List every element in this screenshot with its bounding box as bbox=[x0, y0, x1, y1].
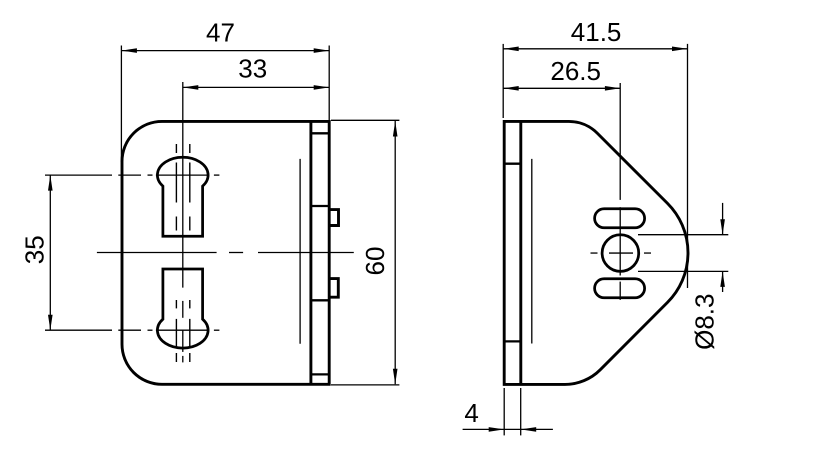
lower circle horizontal centerline bbox=[45, 329, 219, 331]
arrow 35 bottom bbox=[48, 315, 53, 331]
lower slot hidden dashes left bbox=[175, 300, 177, 362]
upper circle horizontal centerline bbox=[45, 174, 219, 176]
arrow 33 left bbox=[183, 85, 199, 90]
dimension 35 bbox=[49, 175, 51, 330]
right view outline bbox=[504, 121, 688, 384]
svg-text:47: 47 bbox=[206, 18, 235, 48]
svg-text:Ø8.3: Ø8.3 bbox=[690, 294, 720, 350]
arrow 47 left bbox=[121, 48, 136, 53]
right strip tick 2 bbox=[504, 340, 521, 342]
left view flange strip line bbox=[309, 121, 312, 384]
arrow 41.5 left bbox=[503, 47, 519, 52]
dimension 4 bbox=[463, 388, 553, 435]
dimension D8.3 extension lines bbox=[638, 203, 728, 292]
svg-text:33: 33 bbox=[238, 54, 267, 84]
arrow 33 right bbox=[314, 85, 330, 90]
tab 2 bbox=[329, 279, 338, 298]
svg-text:35: 35 bbox=[20, 235, 50, 264]
arrow 47 right bbox=[314, 48, 330, 53]
mid horizontal centerline bbox=[97, 252, 354, 254]
arrow 60 top bbox=[393, 121, 398, 137]
slot vertical centerline bbox=[182, 82, 184, 362]
dimension 26.5 bbox=[503, 87, 620, 89]
right view thickness line bbox=[519, 121, 522, 384]
lower keyhole slot bbox=[157, 269, 208, 348]
svg-text:41.5: 41.5 bbox=[571, 17, 622, 47]
upper keyhole slot bbox=[157, 157, 208, 236]
left view outline bbox=[122, 121, 329, 384]
stadium slot lower bbox=[595, 279, 645, 298]
stadium slot upper bbox=[595, 209, 645, 228]
svg-text:26.5: 26.5 bbox=[550, 56, 601, 86]
strip tick 4 bbox=[311, 373, 329, 375]
strip tick 3 bbox=[311, 299, 329, 301]
dimension 41.5 bbox=[503, 44, 687, 288]
svg-text:4: 4 bbox=[464, 398, 478, 428]
right strip tick 1 bbox=[504, 163, 521, 165]
arrowheads left view bbox=[48, 48, 398, 384]
upper slot hidden dashes right bbox=[189, 144, 191, 231]
dimension 60 bbox=[331, 120, 399, 385]
arrow 41.5 right bbox=[672, 47, 688, 52]
dimension 33 bbox=[183, 86, 329, 88]
arrow D8.3 top bbox=[720, 219, 725, 235]
hole circle bbox=[602, 235, 639, 272]
right view bend tangent thin line bbox=[531, 159, 533, 344]
arrow 26.5 right bbox=[605, 86, 621, 91]
tab 1 bbox=[329, 210, 338, 226]
arrow 60 bottom bbox=[393, 369, 398, 385]
left view bend tangent thin line bbox=[299, 159, 301, 344]
strip tick 2 bbox=[311, 205, 329, 207]
svg-text:60: 60 bbox=[360, 247, 390, 276]
arrow 4 left bbox=[489, 427, 505, 432]
right view horizontal centerline bbox=[591, 252, 652, 254]
arrow 4 right bbox=[521, 427, 537, 432]
arrowheads right view bbox=[489, 47, 725, 432]
dimension 47 bbox=[121, 46, 329, 163]
lower slot hidden dashes right bbox=[189, 300, 191, 362]
arrow 35 top bbox=[48, 175, 53, 191]
upper slot hidden dashes left bbox=[175, 144, 177, 231]
arrow D8.3 bottom bbox=[720, 271, 725, 287]
arrow 26.5 left bbox=[503, 86, 519, 91]
right view vertical centerline bbox=[619, 83, 621, 300]
strip tick 1 bbox=[311, 132, 329, 134]
